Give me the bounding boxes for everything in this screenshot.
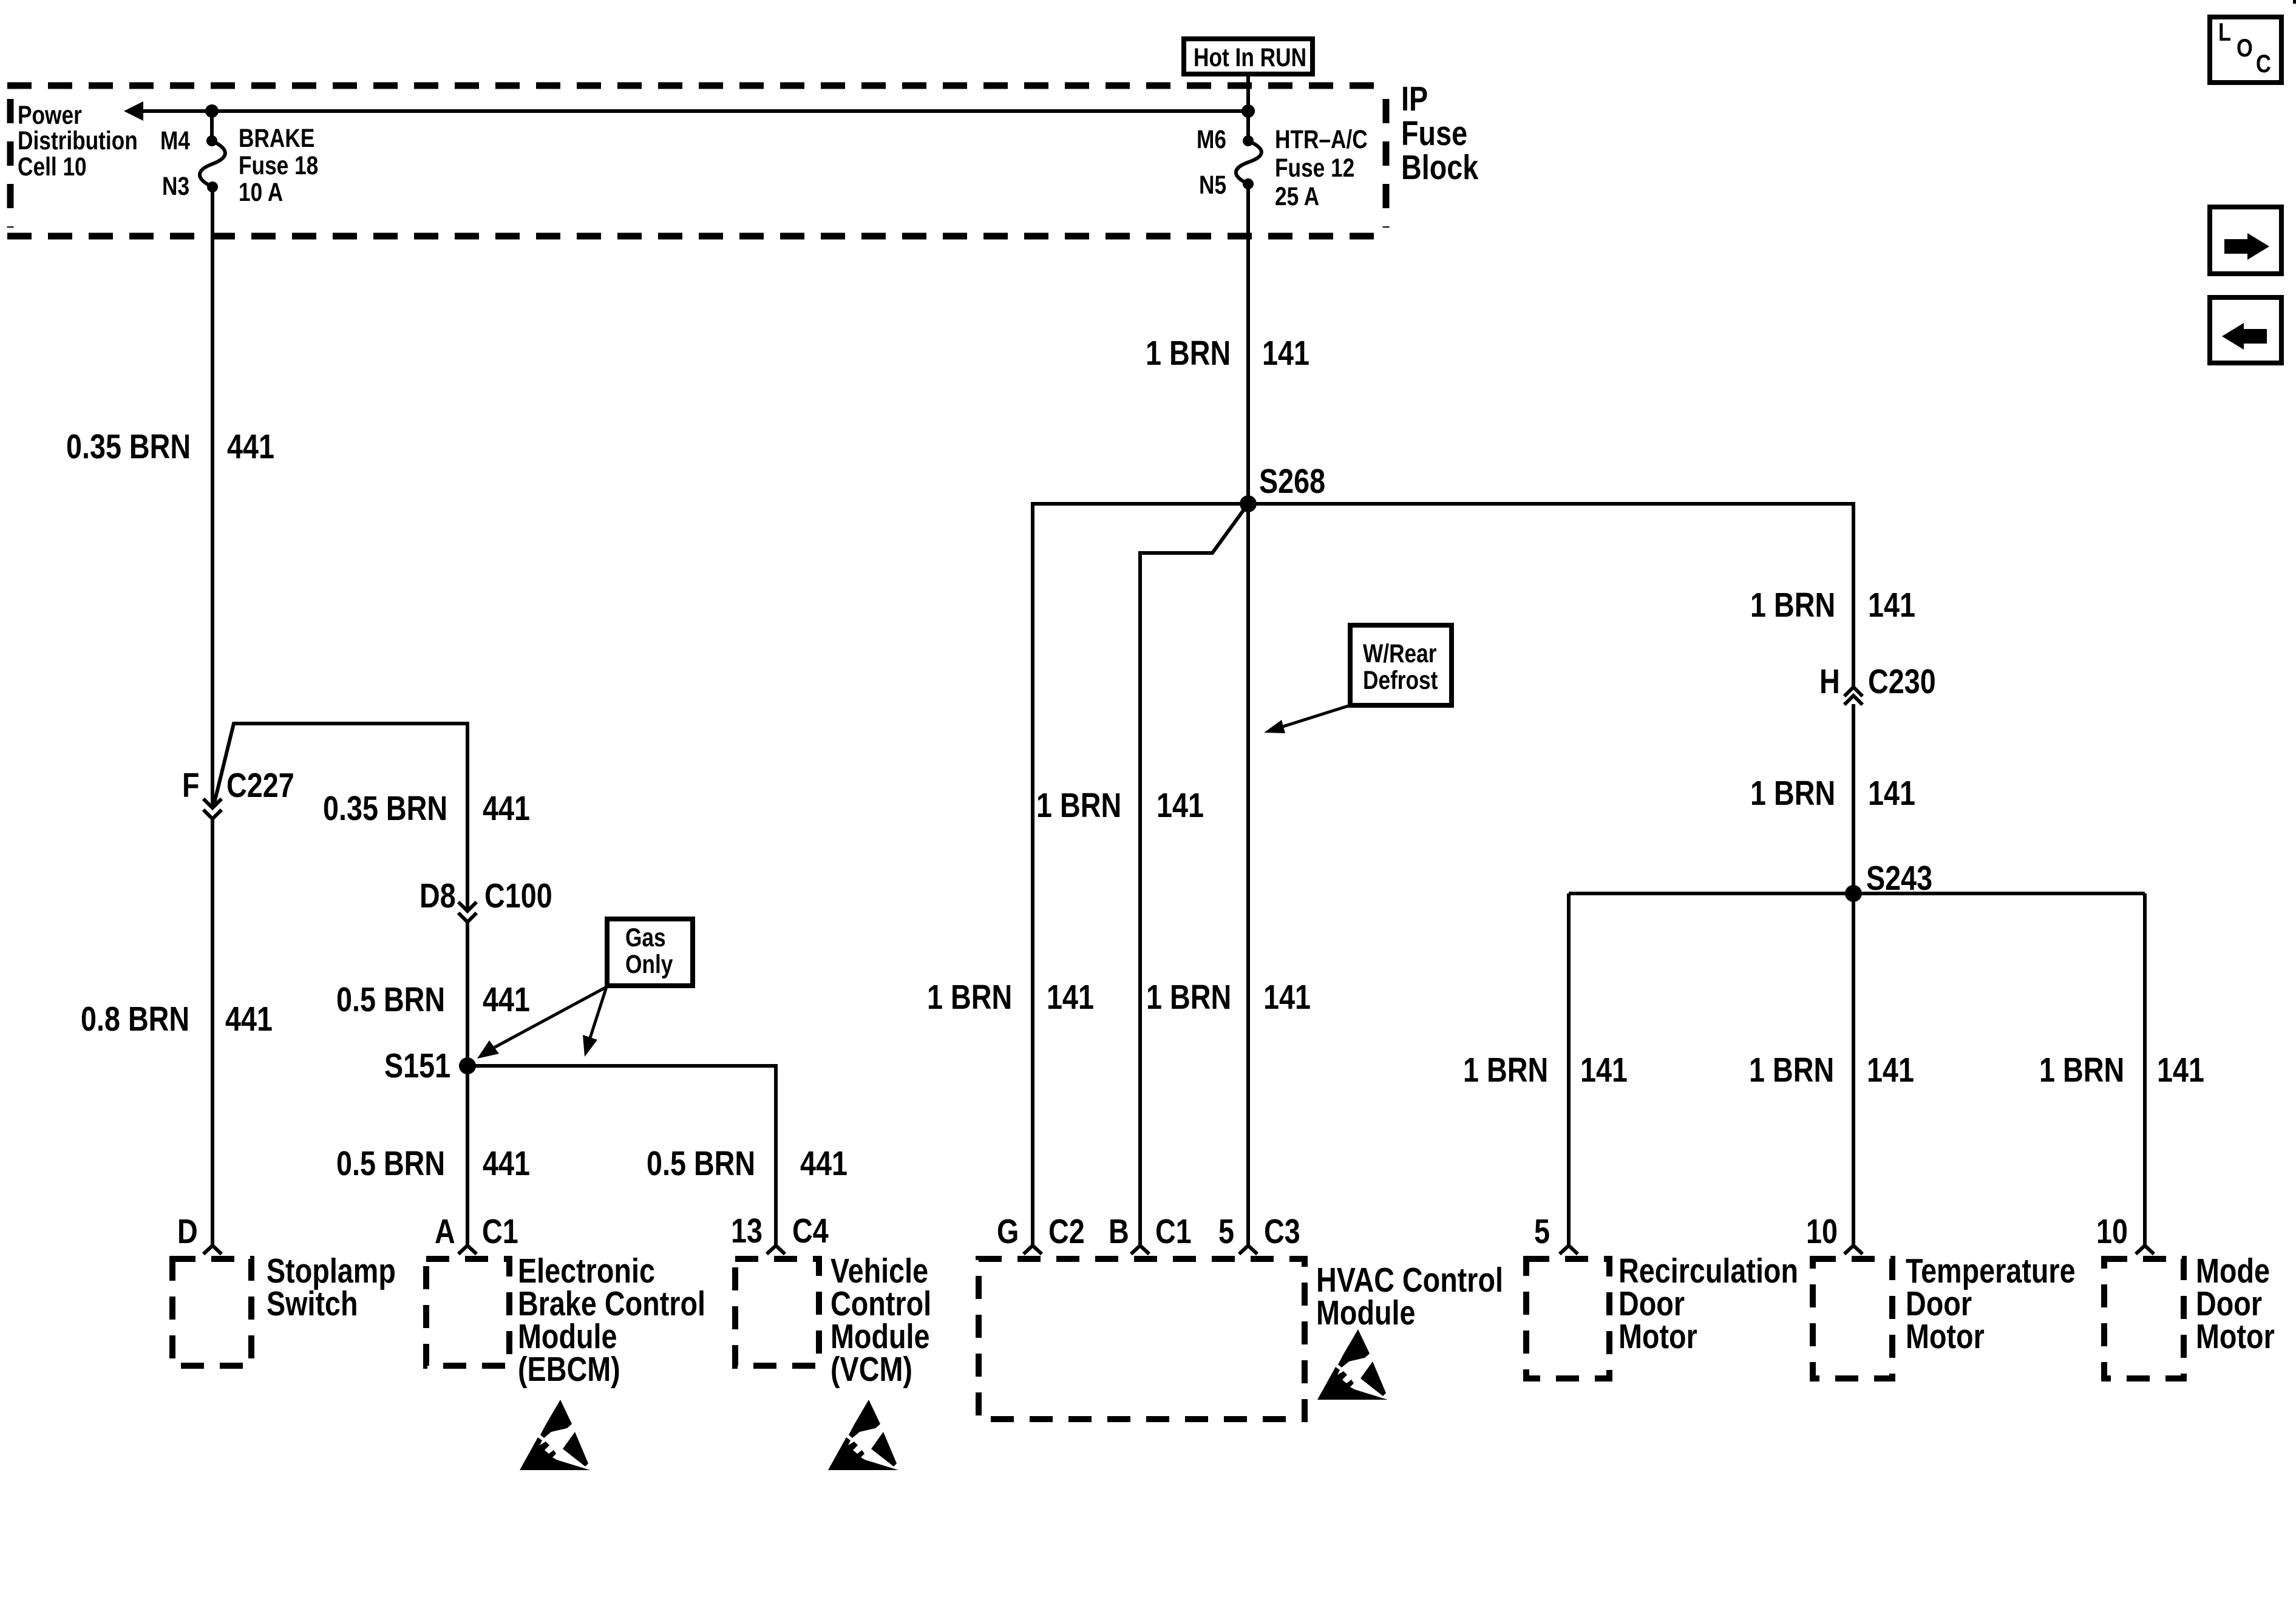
svg-text:5: 5 — [1218, 1213, 1234, 1251]
svg-text:Fuse: Fuse — [1401, 115, 1467, 153]
svg-text:0.35 BRN: 0.35 BRN — [66, 428, 191, 466]
svg-text:1 BRN: 1 BRN — [1750, 586, 1835, 625]
wire: 0.35 BRN 441 from N3 down to C227 — [211, 187, 214, 807]
wire: S268 right branch to C230 — [1248, 504, 1853, 688]
wire: 0.8 BRN 441 from C227 down to stoplamp switch pin D — [211, 819, 214, 1246]
svg-text:HTR–A/C: HTR–A/C — [1275, 125, 1368, 154]
node S151 — [459, 1057, 476, 1074]
wire: mode branch down — [2143, 893, 2147, 1246]
svg-text:Module: Module — [1316, 1294, 1416, 1332]
svg-text:141: 141 — [1262, 334, 1309, 373]
svg-text:441: 441 — [227, 428, 274, 466]
svg-text:141: 141 — [1580, 1051, 1628, 1090]
recirculation door motor dashed box — [1526, 1259, 1609, 1378]
connector C227 pin F (double chevron down) — [203, 799, 222, 808]
HVAC control module dashed box — [979, 1259, 1305, 1419]
svg-text:Switch: Switch — [267, 1285, 358, 1323]
wire: horizontal feed to Power Distribution with left arrow — [140, 109, 1248, 113]
svg-text:141: 141 — [1868, 586, 1915, 625]
svg-text:N5: N5 — [1199, 171, 1226, 200]
wire: recirculation branch down — [1567, 893, 1571, 1246]
svg-text:141: 141 — [1868, 775, 1915, 813]
connector pin A C1 at EBCM — [458, 1246, 477, 1254]
svg-text:0.5 BRN: 0.5 BRN — [336, 981, 445, 1019]
svg-text:Hot In RUN: Hot In RUN — [1194, 43, 1306, 72]
svg-text:1 BRN: 1 BRN — [2039, 1051, 2124, 1090]
IP fuse block / power distribution dashed box — [7, 86, 1386, 236]
svg-text:0.8 BRN: 0.8 BRN — [81, 1000, 189, 1039]
wire: branch from C227 up to D8 C100 (0.35 BRN 441) — [214, 724, 467, 910]
svg-text:441: 441 — [225, 1000, 273, 1039]
svg-text:1 BRN: 1 BRN — [1463, 1051, 1548, 1090]
wire: S268 left branch to HVAC pin G C2 — [1033, 504, 1248, 1246]
svg-text:Only: Only — [625, 950, 673, 979]
svg-text:(EBCM): (EBCM) — [518, 1351, 620, 1389]
stoplamp switch dashed box — [172, 1259, 251, 1366]
temperature door motor dashed box — [1813, 1259, 1892, 1378]
svg-text:M4: M4 — [160, 126, 190, 155]
svg-text:10: 10 — [2096, 1213, 2128, 1251]
svg-text:0.5 BRN: 0.5 BRN — [336, 1145, 445, 1183]
connector pin 10 at temperature door motor — [1844, 1246, 1863, 1254]
connector pin B C1 at HVAC — [1131, 1246, 1149, 1254]
svg-text:Defrost: Defrost — [1363, 666, 1438, 695]
svg-text:C100: C100 — [484, 877, 552, 915]
svg-text:Motor: Motor — [1906, 1318, 1985, 1356]
VCM dashed box — [735, 1259, 819, 1366]
ESD symbol HVAC — [1317, 1329, 1388, 1400]
wire: S151 right branch to VCM pin 13 C4 — [467, 1066, 776, 1246]
node: junction at BRAKE fuse tap — [205, 104, 219, 118]
wire: 1 BRN 141 main feed from N5 down to HVAC pin 5 C3 — [1246, 184, 1250, 1246]
wire: feed from Hot In RUN down into fuse block — [1246, 74, 1250, 141]
wire: S243 horizontal to recirculation and mode branches — [1569, 892, 2145, 895]
svg-text:C: C — [2256, 50, 2271, 78]
EBCM dashed box — [426, 1259, 509, 1366]
svg-text:5: 5 — [1534, 1213, 1550, 1251]
svg-text:Power: Power — [18, 101, 82, 130]
connector pin 5 at recirculation door motor — [1560, 1246, 1578, 1254]
svg-text:0.35 BRN: 0.35 BRN — [323, 790, 447, 828]
svg-text:1 BRN: 1 BRN — [1750, 775, 1835, 813]
svg-text:F: F — [182, 767, 200, 805]
node S268 — [1240, 495, 1257, 512]
svg-text:C227: C227 — [226, 767, 294, 805]
svg-text:C3: C3 — [1264, 1213, 1300, 1251]
label: Hot In RUN box — [1184, 39, 1313, 74]
svg-text:BRAKE: BRAKE — [239, 124, 314, 153]
svg-text:D: D — [177, 1213, 198, 1251]
connector pin 13 C4 at VCM — [767, 1246, 785, 1254]
svg-text:Cell 10: Cell 10 — [18, 152, 87, 181]
svg-text:Fuse 12: Fuse 12 — [1275, 154, 1354, 183]
svg-text:S268: S268 — [1259, 463, 1325, 501]
svg-text:Motor: Motor — [1618, 1318, 1697, 1356]
connector C100 pin D8 (double chevron down) — [458, 902, 477, 911]
connector pin G C2 at HVAC — [1024, 1246, 1042, 1254]
svg-text:1 BRN: 1 BRN — [1036, 787, 1121, 825]
svg-text:(VCM): (VCM) — [830, 1351, 912, 1389]
wire: 0.5 BRN 441 from C100 down to S151 — [466, 922, 469, 1066]
label: W/Rear Defrost box with arrow — [1350, 625, 1452, 705]
label: Gas Only box with arrows — [607, 919, 693, 986]
node: junction at HTR-A/C fuse tap — [1241, 104, 1255, 118]
svg-text:B: B — [1109, 1213, 1129, 1251]
fuse BRAKE Fuse 18 10 A (M4-N3) — [206, 135, 217, 146]
wire: C230 down to S243 — [1852, 704, 1855, 893]
connector pin 10 at mode door motor — [2136, 1246, 2154, 1254]
svg-text:10: 10 — [1806, 1213, 1838, 1251]
svg-text:S151: S151 — [384, 1047, 450, 1085]
wire: S268 branch to HVAC pin B C1 — [1140, 504, 1248, 1246]
svg-text:441: 441 — [483, 1145, 530, 1183]
svg-text:141: 141 — [2157, 1051, 2204, 1090]
svg-text:Block: Block — [1401, 149, 1479, 187]
svg-text:10 A: 10 A — [239, 178, 283, 207]
page corner tick — [2293, 0, 2296, 4]
svg-text:C4: C4 — [792, 1212, 829, 1250]
svg-text:141: 141 — [1263, 978, 1311, 1017]
svg-text:441: 441 — [483, 790, 530, 828]
connector pin 5 C3 at HVAC — [1239, 1246, 1257, 1254]
right arrow navigation box — [2210, 207, 2281, 274]
svg-text:Fuse 18: Fuse 18 — [239, 151, 318, 180]
fuse HTR-A/C Fuse 12 25 A (M6-N5) — [1243, 135, 1254, 146]
svg-text:Gas: Gas — [625, 923, 666, 952]
svg-text:N3: N3 — [162, 172, 189, 201]
svg-text:M6: M6 — [1197, 125, 1226, 154]
svg-text:H: H — [1819, 663, 1840, 701]
svg-text:13: 13 — [731, 1212, 763, 1250]
connector C230 pin H (double chevron up) — [1844, 687, 1863, 696]
svg-text:141: 141 — [1047, 978, 1094, 1017]
svg-text:C1: C1 — [1155, 1213, 1192, 1251]
ESD symbol EBCM — [520, 1400, 590, 1470]
wire: S151 down to EBCM pin A C1 — [466, 1066, 469, 1246]
svg-text:IP: IP — [1401, 80, 1428, 118]
wire: junction down to fuse M4 — [210, 111, 214, 141]
svg-text:441: 441 — [800, 1145, 847, 1183]
svg-text:Motor: Motor — [2196, 1318, 2275, 1356]
svg-text:Distribution: Distribution — [18, 126, 138, 155]
svg-text:C230: C230 — [1868, 663, 1936, 701]
svg-text:1 BRN: 1 BRN — [1146, 978, 1231, 1017]
svg-text:C2: C2 — [1048, 1213, 1085, 1251]
LOC legend box — [2210, 17, 2281, 83]
svg-text:1 BRN: 1 BRN — [1749, 1051, 1834, 1090]
ESD symbol VCM — [828, 1400, 898, 1470]
svg-text:O: O — [2237, 34, 2253, 63]
svg-text:441: 441 — [483, 981, 530, 1019]
svg-text:A: A — [435, 1213, 455, 1251]
mode door motor dashed box — [2104, 1259, 2184, 1378]
svg-text:L: L — [2218, 18, 2231, 47]
svg-text:C1: C1 — [482, 1213, 518, 1251]
wire: temperature branch down — [1852, 893, 1855, 1246]
svg-text:1 BRN: 1 BRN — [927, 978, 1012, 1017]
node S243 — [1845, 885, 1862, 902]
svg-text:D8: D8 — [419, 877, 456, 915]
svg-text:1 BRN: 1 BRN — [1146, 334, 1231, 373]
connector pin D at stoplamp switch — [203, 1246, 222, 1254]
left arrow navigation box — [2210, 297, 2281, 363]
svg-text:141: 141 — [1867, 1051, 1914, 1090]
svg-text:W/Rear: W/Rear — [1363, 639, 1436, 668]
svg-text:25 A: 25 A — [1275, 182, 1319, 211]
svg-text:G: G — [997, 1213, 1019, 1251]
svg-text:0.5 BRN: 0.5 BRN — [647, 1145, 755, 1183]
svg-text:141: 141 — [1156, 787, 1204, 825]
